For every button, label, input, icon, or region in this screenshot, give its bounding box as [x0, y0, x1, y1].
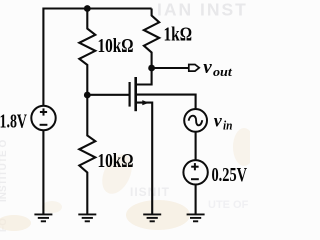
svg-text:out: out — [213, 64, 232, 79]
svg-text:0.25V: 0.25V — [212, 165, 248, 186]
svg-text:UTE OF: UTE OF — [208, 199, 249, 211]
svg-text:10kΩ: 10kΩ — [98, 151, 134, 172]
svg-text:IISNIT: IISNIT — [130, 185, 170, 199]
svg-text:v: v — [214, 111, 223, 131]
svg-text:v: v — [203, 57, 212, 78]
svg-text:INSTITUTE O: INSTITUTE O — [0, 140, 9, 202]
svg-text:1.8V: 1.8V — [0, 112, 27, 133]
svg-text:in: in — [223, 117, 233, 132]
svg-text:10kΩ: 10kΩ — [98, 36, 134, 57]
svg-text:1kΩ: 1kΩ — [164, 25, 193, 46]
svg-text:IAN INST: IAN INST — [157, 0, 248, 20]
